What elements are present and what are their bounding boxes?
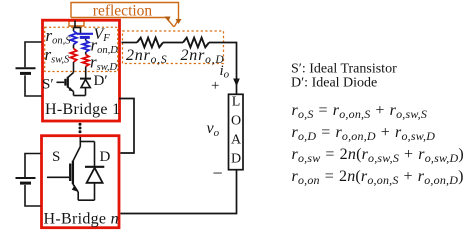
current arrow i_o bbox=[233, 79, 240, 87]
resistor 2nr_o,S bbox=[137, 38, 163, 48]
wire S-chain top bbox=[73, 28, 75, 32]
wire to transistor bbox=[73, 62, 75, 73]
wire bbox=[163, 42, 183, 44]
reflection callout box bbox=[69, 3, 179, 27]
wire to diode bbox=[85, 67, 87, 79]
wire H-Bridge1 output to top resistors bbox=[122, 42, 138, 44]
transistor S' (IGBT) bbox=[57, 73, 74, 96]
svg-text:D: D bbox=[100, 149, 111, 165]
H-Bridge 1 box bbox=[43, 20, 120, 121]
svg-text:L: L bbox=[232, 95, 241, 110]
wire collector stub H-Bridge n bbox=[80, 137, 94, 147]
emitter arrow S' bbox=[69, 87, 74, 91]
diode D bbox=[85, 142, 104, 201]
svg-text:D′: Ideal Diode: D′: Ideal Diode bbox=[291, 76, 377, 91]
wire bottom junction H-Bridge n bbox=[78, 199, 94, 201]
emitter arrow S bbox=[72, 185, 79, 192]
svg-text:S′: Ideal Transistor: S′: Ideal Transistor bbox=[291, 62, 397, 77]
node A (top junction H-Bridge 1) bbox=[74, 21, 81, 28]
wire load bottom to H-Bridge n bbox=[121, 170, 237, 214]
svg-text:D′: D′ bbox=[94, 73, 108, 89]
reflection arrowhead barbs bbox=[165, 17, 182, 25]
resistor 2nr_o,D bbox=[183, 38, 209, 48]
svg-text:A: A bbox=[231, 133, 242, 148]
wire bbox=[85, 39, 87, 41]
resistor r_sw,S bbox=[70, 49, 76, 63]
LOAD box bbox=[229, 94, 244, 169]
resistor r_on,D bbox=[83, 41, 89, 53]
battery B2 bbox=[16, 154, 41, 207]
H-Bridge n box bbox=[42, 136, 120, 228]
wire bbox=[85, 52, 87, 55]
wire H-Bridge1 to H-Bridge n (series) bbox=[119, 99, 134, 154]
svg-text:D: D bbox=[231, 152, 241, 167]
svg-text:O: O bbox=[231, 114, 241, 129]
battery B1 bbox=[16, 42, 42, 96]
svg-text:H-Bridge 1: H-Bridge 1 bbox=[45, 101, 120, 118]
outer dashed box (reflected resistances) bbox=[123, 31, 224, 64]
inner dashed box (on-state / switching resistances) bbox=[45, 27, 118, 71]
resistor r_sw,D bbox=[83, 55, 89, 67]
ellipsis between bridges bbox=[79, 123, 82, 134]
wire bottom junction H-Bridge 1 bbox=[74, 95, 86, 97]
transistor S (IGBT) bbox=[47, 147, 80, 201]
voltage source V_F' bbox=[77, 34, 94, 38]
svg-text:H-Bridge n: H-Bridge n bbox=[44, 211, 119, 228]
svg-text:−: − bbox=[213, 163, 223, 183]
svg-text:S: S bbox=[52, 149, 60, 165]
svg-text:S′: S′ bbox=[42, 77, 54, 93]
resistor r_on,S bbox=[70, 31, 76, 45]
wire to load bbox=[209, 43, 237, 95]
svg-text:reflection: reflection bbox=[93, 2, 153, 19]
diode D' bbox=[80, 79, 91, 96]
wire bbox=[73, 45, 75, 49]
wire D-chain top bbox=[80, 28, 82, 34]
svg-text:+: + bbox=[211, 78, 219, 94]
